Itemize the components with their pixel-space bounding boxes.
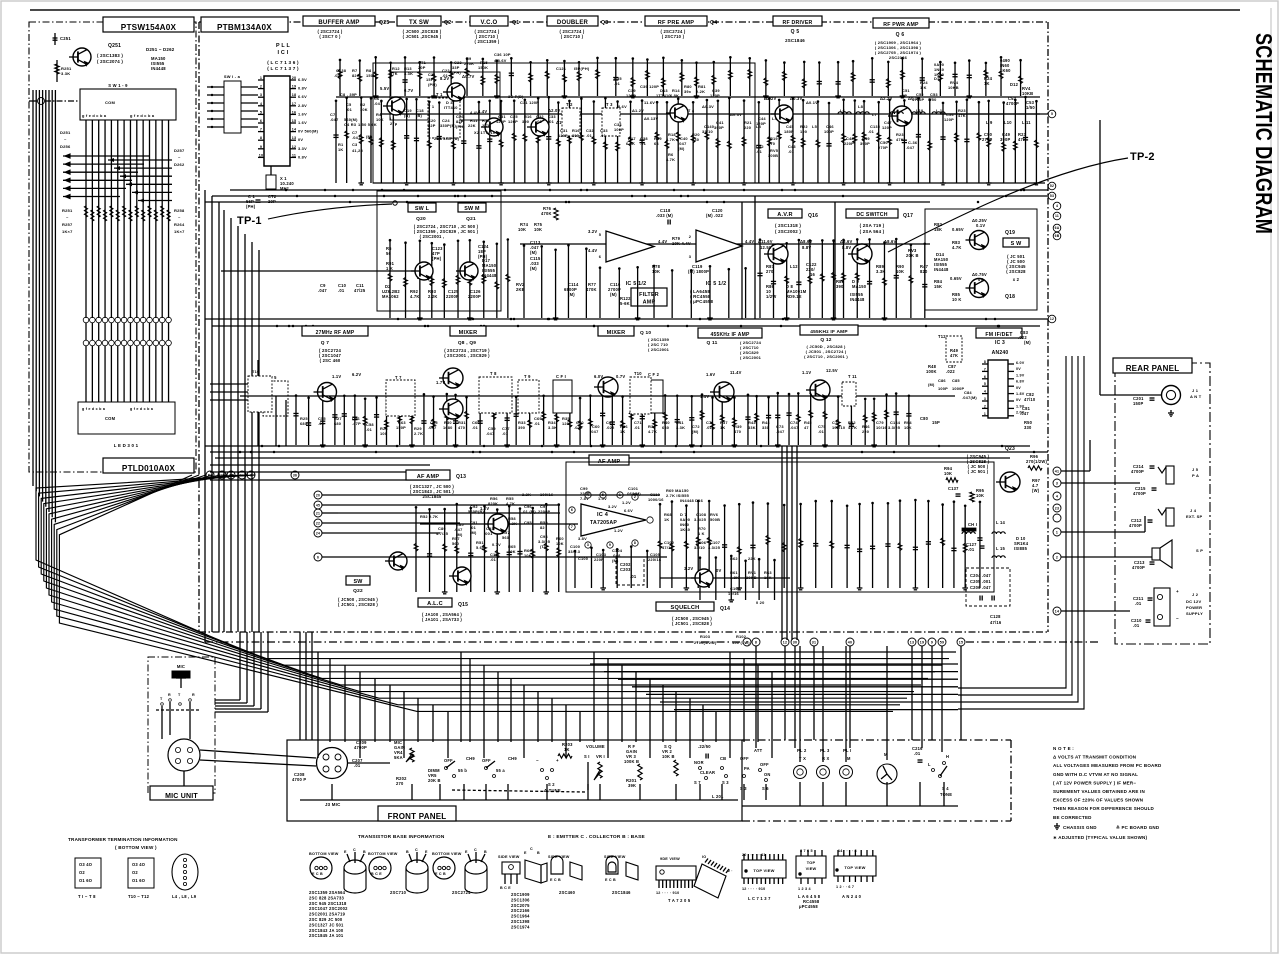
- svg-text:0.8V: 0.8V: [298, 86, 307, 91]
- svg-text:L5: L5: [812, 124, 818, 129]
- svg-text:120P: 120P: [756, 121, 766, 126]
- svg-text:C8 , 39P: C8 , 39P: [340, 92, 357, 97]
- svg-text:12: 12: [292, 145, 297, 149]
- svg-text:Q 7: Q 7: [321, 340, 330, 346]
- IC U4 TA7205AP: [581, 504, 646, 536]
- svg-text:0.7V: 0.7V: [492, 542, 501, 547]
- svg-text:GND WITH D.C VTVM AT NO S: GND WITH D.C VTVM AT NO SIGNAL: [1053, 772, 1138, 777]
- svg-text:T 4: T 4: [688, 108, 695, 113]
- svg-text:120P: 120P: [944, 117, 954, 122]
- transistor Q1 vco: [485, 118, 503, 136]
- svg-text:.01: .01: [640, 141, 647, 146]
- package drawing TO92 1: [344, 860, 366, 893]
- svg-text:.047: .047: [1020, 411, 1029, 416]
- svg-text:1680: 1680: [443, 425, 453, 430]
- svg-text:0V: 0V: [298, 137, 303, 142]
- svg-text:T 7: T 7: [395, 375, 402, 380]
- board outline PTBM134A0X: [198, 22, 200, 632]
- svg-text:27MHz RF AMP: 27MHz RF AMP: [316, 330, 355, 336]
- svg-text:68: 68: [654, 141, 659, 146]
- svg-text:L 11: L 11: [1022, 120, 1031, 125]
- svg-text:1K60: 1K60: [680, 527, 690, 532]
- svg-text:R258: R258: [174, 208, 185, 213]
- svg-text:ALL VOLTAGES MEASURED FROM PC: ALL VOLTAGES MEASURED FROM PC BOARD: [1053, 763, 1162, 768]
- part list column 1: [309, 890, 348, 938]
- svg-text:3.2V: 3.2V: [608, 504, 617, 509]
- svg-text:4.7K: 4.7K: [666, 157, 675, 162]
- component legs RF upper: [338, 56, 1023, 98]
- svg-text:( 2SC2002 ): ( 2SC2002 ): [775, 229, 801, 234]
- svg-text:T10: T10: [634, 371, 642, 376]
- svg-text:(PH): (PH): [452, 70, 461, 75]
- block title FM IF/DET IC3: [976, 328, 1022, 338]
- enclosure VCO block: [373, 63, 755, 183]
- wire bus horizontal mid3: [205, 201, 930, 203]
- diode matrix D251-D256 arrows: [63, 154, 150, 199]
- svg-text:3.3K: 3.3K: [676, 425, 685, 430]
- block title RF DRIVER Q5: [773, 16, 822, 26]
- component legs IC5 row b: [599, 265, 747, 320]
- transistor Q21: [460, 262, 478, 280]
- wire to antenna: [1100, 394, 1161, 396]
- crystal X1: [266, 175, 276, 189]
- svg-text:PL 2: PL 2: [797, 748, 807, 753]
- svg-text:33/10: 33/10: [694, 545, 705, 550]
- svg-text:12.5V: 12.5V: [760, 245, 772, 250]
- svg-text:10K: 10K: [976, 493, 984, 498]
- svg-text:.01: .01: [534, 421, 541, 426]
- svg-text:Q15: Q15: [458, 602, 468, 608]
- package drawing TO220 slant: [525, 860, 541, 883]
- svg-text:1 2 3 4: 1 2 3 4: [798, 887, 812, 891]
- svg-text:T: T: [178, 693, 181, 697]
- svg-text:270: 270: [768, 141, 775, 146]
- svg-text:0V: 0V: [1016, 367, 1021, 371]
- svg-text:BUFFER AMP: BUFFER AMP: [318, 20, 359, 26]
- svg-text:g f e d c b a: g f e d c b a: [82, 113, 107, 118]
- svg-text:(M): (M): [610, 292, 617, 297]
- svg-text:1.6V: 1.6V: [706, 372, 715, 377]
- svg-text:1/50: 1/50: [1026, 105, 1035, 110]
- svg-text:4.4V: 4.4V: [588, 248, 597, 253]
- svg-text:M: M: [847, 756, 851, 761]
- IC U3 AN240 body: [988, 360, 1008, 418]
- svg-text:1K60: 1K60: [1000, 68, 1011, 73]
- svg-text:39x: 39x: [684, 89, 692, 94]
- wire chain bottom terminals: [205, 641, 742, 643]
- svg-text:R103: R103: [700, 634, 711, 639]
- svg-text:470K: 470K: [586, 287, 597, 292]
- wires AF row to left edge: [210, 465, 430, 480]
- svg-text:1 K: 1 K: [386, 266, 393, 271]
- svg-text:330: 330: [692, 137, 699, 142]
- svg-text:.01: .01: [706, 425, 713, 430]
- svg-text:150P: 150P: [396, 425, 406, 430]
- svg-text:SQUELCH: SQUELCH: [671, 605, 700, 611]
- svg-text:.047: .047: [486, 431, 494, 436]
- svg-text:2SC2075: 2SC2075: [511, 903, 530, 908]
- svg-text:3C P(B): 3C P(B): [508, 94, 524, 99]
- svg-text:SW M: SW M: [464, 206, 480, 212]
- svg-text:5.5V: 5.5V: [380, 86, 389, 91]
- voltage labels IC3: [1016, 361, 1025, 415]
- svg-text:220P: 220P: [594, 557, 604, 562]
- svg-text:TRANSFORMER TERMINATION INFO: TRANSFORMER TERMINATION INFORMATION: [68, 837, 178, 842]
- svg-text:2SC1327 JC 501: 2SC1327 JC 501: [309, 922, 344, 927]
- component legs AF row: [658, 499, 983, 590]
- svg-text:g f e d c b a: g f e d c b a: [130, 407, 154, 411]
- svg-text:Δ0.1V: Δ0.1V: [806, 100, 818, 105]
- svg-text:( 2SC 460: ( 2SC 460: [320, 358, 341, 363]
- transformer pinout T10-T12: [128, 858, 154, 888]
- svg-text:x 2: x 2: [1013, 277, 1020, 282]
- svg-text:~: ~: [178, 155, 181, 160]
- svg-text:0.65V: 0.65V: [952, 227, 964, 232]
- svg-text:MIC UNIT: MIC UNIT: [165, 793, 198, 800]
- svg-text:2SC1306: 2SC1306: [511, 897, 530, 902]
- svg-text:12: 12: [1050, 317, 1054, 321]
- svg-text:S 2: S 2: [548, 782, 555, 787]
- svg-text:1K: 1K: [338, 147, 343, 152]
- block title RF PWR AMP Q6: [873, 18, 929, 28]
- svg-text:53: 53: [1050, 194, 1054, 198]
- svg-text:IN4448: IN4448: [482, 273, 497, 278]
- svg-text:6B: 6B: [1055, 234, 1060, 238]
- svg-text:VOLUME: VOLUME: [586, 744, 605, 749]
- svg-text:.01: .01: [586, 133, 593, 138]
- label box MIC UNIT: [150, 786, 213, 800]
- block title RF PRE AMP Q4: [645, 16, 707, 26]
- svg-text:6.0V: 6.0V: [594, 374, 603, 379]
- svg-text:23: 23: [1055, 506, 1059, 510]
- svg-text:(PH): (PH): [428, 82, 437, 87]
- svg-text:4.4V: 4.4V: [470, 110, 479, 115]
- svg-text:Δ0.3V: Δ0.3V: [702, 104, 714, 109]
- label box FRONT PANEL: [378, 806, 456, 821]
- transistor Q9 (second mixer): [443, 399, 463, 419]
- transistor Q6 rf pwr amp: [892, 106, 912, 126]
- svg-text:270: 270: [396, 781, 404, 786]
- svg-text:0V: 0V: [1016, 398, 1021, 402]
- svg-text:B: B: [406, 850, 409, 854]
- svg-text:14 · · · · 8: 14 · · · · 8: [838, 849, 857, 853]
- svg-text:300B: 300B: [768, 153, 778, 158]
- svg-text:BOTTOM VIEW: BOTTOM VIEW: [432, 852, 462, 856]
- block title 27MHz RF AMP Q7: [302, 326, 368, 336]
- svg-text:4.7K: 4.7K: [666, 137, 675, 142]
- wire panel dashed link: [452, 790, 585, 792]
- connector row LED board top: [83, 323, 171, 346]
- terminal circles right column top: [1048, 182, 1056, 190]
- svg-text:47: 47: [804, 425, 809, 430]
- svg-text:T 1: T 1: [436, 92, 443, 97]
- svg-text:( JC501 , 2SC828 ): ( JC501 , 2SC828 ): [672, 621, 712, 626]
- svg-text:.01: .01: [914, 751, 921, 756]
- panel outline REAR PANEL: [1115, 363, 1210, 644]
- wire bus horizontal mid2: [212, 195, 1048, 197]
- svg-text:S W: S W: [1011, 241, 1023, 247]
- svg-text:L C 7 1 3 7: L C 7 1 3 7: [748, 896, 771, 901]
- svg-text:( L C 7 1 3 6 ): ( L C 7 1 3 6 ): [267, 60, 299, 65]
- wire left-edge column verticals: [224, 210, 259, 632]
- svg-text:.022: .022: [574, 425, 583, 430]
- svg-text:330: 330: [1024, 425, 1032, 430]
- svg-text:45: 45: [316, 503, 320, 507]
- svg-text:(M) .022: (M) .022: [706, 213, 724, 218]
- svg-text:Q 6: Q 6: [896, 32, 905, 38]
- svg-text:16: 16: [810, 272, 815, 277]
- svg-text:100P: 100P: [614, 127, 624, 132]
- svg-text:Q 12: Q 12: [820, 337, 831, 343]
- svg-text:10K: 10K: [360, 107, 368, 112]
- svg-text:2SC 945 2SC1318: 2SC 945 2SC1318: [309, 901, 347, 906]
- svg-text:(PH): (PH): [432, 256, 442, 261]
- svg-text:ATT: ATT: [754, 748, 763, 753]
- svg-text:3.3K: 3.3K: [548, 425, 557, 430]
- svg-text:1K: 1K: [720, 425, 725, 430]
- svg-text:IN4448 D16: IN4448 D16: [680, 498, 704, 503]
- svg-text:55 b: 55 b: [458, 768, 467, 773]
- block title SQUELCH Q14: [656, 602, 714, 611]
- block title A.L.C Q15: [418, 598, 452, 607]
- svg-text:1 2 · · 6 7: 1 2 · · 6 7: [836, 885, 854, 889]
- block title 455KHz IF AMP Q11: [698, 328, 762, 338]
- svg-text:1K60: 1K60: [934, 72, 944, 77]
- svg-text:9: 9: [260, 145, 262, 149]
- svg-text:T I ~ T 8: T I ~ T 8: [78, 894, 96, 899]
- svg-text:O2: O2: [132, 870, 138, 875]
- svg-text:REAR PANEL: REAR PANEL: [1126, 364, 1180, 373]
- block title DC SWITCH Q17: [846, 209, 898, 218]
- svg-text:330P(B): 330P(B): [440, 123, 457, 128]
- svg-text:5: 5: [599, 232, 602, 237]
- svg-text:(PH): (PH): [456, 124, 465, 129]
- svg-text:100: 100: [800, 129, 807, 134]
- svg-text:1K: 1K: [620, 429, 625, 434]
- transistor Q14: [695, 569, 713, 587]
- svg-text:.01: .01: [472, 425, 479, 430]
- svg-text:2SC1359 2SA564: 2SC1359 2SA564: [309, 890, 346, 895]
- svg-text:220: 220: [744, 125, 751, 130]
- svg-text:SCHEMATIC DIAGRAM: SCHEMATIC DIAGRAM: [1251, 33, 1277, 234]
- svg-text:CHASSIS GND: CHASSIS GND: [1063, 825, 1097, 830]
- transistor Q4 rf pre amp: [670, 104, 688, 122]
- svg-text:R52 2.7K: R52 2.7K: [420, 514, 438, 519]
- svg-text:2SC460: 2SC460: [559, 890, 576, 895]
- svg-text:R264: R264: [174, 222, 185, 227]
- svg-text:Δ8.6V: Δ8.6V: [840, 239, 853, 244]
- svg-text:(T): (T): [540, 544, 546, 549]
- transformer T1 dashed: [428, 98, 460, 138]
- svg-text:Δ0.3V: Δ0.3V: [730, 112, 742, 117]
- svg-text:IC 5 1/2: IC 5 1/2: [706, 281, 727, 287]
- LED digit block LED301: [78, 402, 175, 434]
- svg-text:.01: .01: [1133, 623, 1140, 628]
- transistor Q13b: [453, 567, 471, 585]
- svg-text:.022: .022: [606, 425, 615, 430]
- svg-text:RD9.1E: RD9.1E: [786, 294, 802, 299]
- svg-text:1K: 1K: [664, 517, 669, 522]
- svg-text:1K: 1K: [564, 747, 570, 752]
- block title AF AMP Q13: [406, 470, 450, 480]
- svg-text:−: −: [536, 758, 539, 763]
- svg-text:7: 7: [984, 367, 986, 371]
- svg-text:2SC2724: 2SC2724: [452, 890, 471, 895]
- svg-text:OFF: OFF: [740, 756, 749, 761]
- svg-text:6: 6: [599, 254, 602, 259]
- block title 455KHz IF AMP Q12: [800, 325, 858, 335]
- svg-text:.01: .01: [548, 119, 555, 124]
- svg-text:Q14: Q14: [720, 606, 730, 612]
- svg-text:(B): (B): [404, 113, 411, 118]
- svg-text:1.9V: 1.9V: [1016, 373, 1025, 377]
- svg-text:390: 390: [572, 133, 579, 138]
- resistor array R251-R257: [85, 206, 171, 221]
- svg-text:E: E: [344, 850, 347, 854]
- svg-text:.047: .047: [330, 117, 338, 122]
- svg-text:3.3K: 3.3K: [404, 71, 413, 76]
- svg-text:E: E: [524, 851, 527, 855]
- svg-text:3.3K: 3.3K: [61, 71, 70, 76]
- diode matrix right group: [108, 158, 172, 203]
- svg-text:RF PWR AMP: RF PWR AMP: [883, 22, 919, 28]
- block title SW Q19/Q18: [1003, 238, 1029, 247]
- svg-text:R: R: [192, 693, 195, 697]
- svg-text:22K 330P(B): 22K 330P(B): [434, 136, 460, 141]
- svg-text:COM: COM: [105, 416, 116, 421]
- svg-text:.01: .01: [502, 431, 509, 436]
- svg-text:SW I - a: SW I - a: [224, 74, 241, 79]
- svg-text:1.8K: 1.8K: [730, 575, 739, 580]
- svg-text:2SC2166: 2SC2166: [511, 908, 530, 913]
- svg-text:MIC: MIC: [177, 664, 185, 669]
- svg-text:220/16: 220/16: [648, 557, 662, 562]
- terminal row bottom of board: [743, 638, 965, 646]
- svg-text:Q22: Q22: [353, 588, 363, 594]
- svg-text:3.3/25: 3.3/25: [708, 545, 721, 550]
- svg-text:10K: 10K: [652, 269, 660, 274]
- svg-text:47K: 47K: [390, 71, 398, 76]
- svg-text:4700P: 4700P: [1129, 523, 1142, 528]
- signal path wire AF row: [420, 523, 578, 525]
- svg-text:( μPC4558: ( μPC4558: [690, 299, 714, 304]
- wire left vertical bus: [33, 90, 55, 522]
- svg-text:19: 19: [292, 85, 297, 89]
- svg-text:S 3: S 3: [722, 780, 729, 785]
- svg-text:4: 4: [1056, 204, 1058, 208]
- svg-text:I C I: I C I: [278, 50, 289, 56]
- svg-text:6.8V: 6.8V: [1016, 380, 1025, 384]
- svg-text:.01: .01: [366, 427, 373, 432]
- svg-text:2SC1398: 2SC1398: [511, 919, 530, 924]
- svg-text:6A: 6A: [1055, 226, 1060, 230]
- svg-text:IC 4: IC 4: [597, 512, 609, 518]
- svg-text:+: +: [1176, 589, 1179, 594]
- svg-text:Δ VOLTS AT TRANSMIT CONDITI: Δ VOLTS AT TRANSMIT CONDITION: [1053, 755, 1136, 760]
- svg-text:C86: C86: [938, 378, 946, 383]
- svg-text:OFF: OFF: [760, 762, 769, 767]
- svg-text:PTLD010A0X: PTLD010A0X: [122, 464, 175, 473]
- svg-text:11: 11: [292, 153, 296, 157]
- svg-text:4700P: 4700P: [1133, 491, 1146, 496]
- svg-text:.01: .01: [630, 574, 637, 579]
- svg-text:POWER: POWER: [1186, 605, 1202, 610]
- svg-text:3: 3: [1056, 481, 1058, 485]
- svg-text:C85: C85: [952, 378, 960, 383]
- svg-text:20 · · · · · 11: 20 · · · · · 11: [742, 853, 766, 857]
- svg-text:455KHz IF AMP: 455KHz IF AMP: [810, 329, 848, 335]
- svg-text:.047(M): .047(M): [962, 395, 977, 400]
- svg-text:150K: 150K: [366, 73, 376, 78]
- rail SW row right: [520, 243, 930, 245]
- svg-text:6.8K: 6.8K: [626, 141, 635, 146]
- svg-text:20: 20: [292, 76, 297, 80]
- svg-text:10K: 10K: [508, 549, 516, 554]
- svg-text:DOUBLER: DOUBLER: [557, 20, 589, 26]
- svg-text:Q251: Q251: [108, 43, 121, 49]
- svg-text:Q20: Q20: [416, 216, 426, 222]
- svg-text:J 2: J 2: [1192, 592, 1199, 597]
- svg-text:1000/16: 1000/16: [648, 497, 664, 502]
- svg-text:S W 1 - 9: S W 1 - 9: [108, 83, 128, 88]
- svg-text:S 3: S 3: [740, 786, 747, 791]
- svg-text:FM IF/DET: FM IF/DET: [985, 332, 1013, 338]
- svg-text:220K: 220K: [464, 61, 474, 66]
- svg-text:RF DRIVER: RF DRIVER: [783, 20, 813, 26]
- svg-text:4700P: 4700P: [1131, 469, 1144, 474]
- svg-text:IN4448: IN4448: [934, 267, 949, 272]
- svg-text:VIEW: VIEW: [806, 866, 817, 871]
- svg-text:T 1: T 1: [428, 104, 435, 109]
- wire bus horizontal mid1: [230, 189, 1048, 191]
- component legs RF top row: [333, 96, 1039, 185]
- svg-text:20K B: 20K B: [906, 253, 919, 258]
- svg-text:Q19: Q19: [1005, 230, 1015, 236]
- transistor Q19: [970, 231, 989, 250]
- svg-text:CH I: CH I: [968, 522, 977, 527]
- svg-text:PTSW154A0X: PTSW154A0X: [121, 23, 177, 32]
- svg-text:120P: 120P: [626, 93, 636, 98]
- panel outline FRONT PANEL: [287, 740, 742, 821]
- svg-text:.47P: .47P: [352, 421, 361, 426]
- svg-text:Δ2.2V: Δ2.2V: [880, 96, 893, 101]
- component legs squelch: [699, 555, 776, 602]
- svg-text:2SC 829 JC 500: 2SC 829 JC 500: [309, 917, 343, 922]
- svg-text:9: 9: [931, 640, 933, 644]
- svg-text:VR I: VR I: [596, 754, 605, 759]
- svg-text:27μ: 27μ: [390, 121, 398, 126]
- svg-text:47K: 47K: [950, 353, 958, 358]
- svg-text:0V: 0V: [1016, 386, 1021, 390]
- signal path wire IF row: [240, 395, 955, 397]
- svg-text:4700P: 4700P: [1132, 565, 1145, 570]
- svg-text:B C E: B C E: [371, 872, 382, 876]
- svg-text:C80: C80: [920, 416, 929, 421]
- svg-text:2SC1974: 2SC1974: [511, 924, 530, 929]
- svg-text:T A 7 2 0 5: T A 7 2 0 5: [668, 898, 691, 903]
- svg-text:( 2SC828: ( 2SC828: [1006, 269, 1026, 274]
- svg-text:1.7V: 1.7V: [436, 380, 445, 385]
- svg-text:14: 14: [292, 128, 297, 132]
- svg-text:~: ~: [178, 215, 181, 220]
- svg-text:8 7 6 5: 8 7 6 5: [800, 849, 813, 853]
- svg-text:5: 5: [260, 110, 262, 114]
- svg-text:13: 13: [292, 136, 297, 140]
- svg-text:CH9: CH9: [508, 756, 517, 761]
- svg-text:20K B: 20K B: [428, 778, 441, 783]
- transistor Q17: [852, 244, 872, 264]
- wire R52 link: [338, 512, 560, 514]
